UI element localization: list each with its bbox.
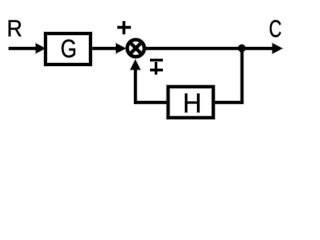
wire G to summing junction bbox=[92, 46, 118, 50]
block G label bbox=[62, 39, 76, 57]
summing junction X stroke 2 bbox=[130, 42, 142, 54]
block H box bbox=[168, 87, 213, 118]
block H label bbox=[185, 94, 200, 113]
node R label bbox=[9, 20, 22, 36]
minus-plus sign plus vertical bbox=[154, 62, 158, 75]
arrowhead up into summing junction bbox=[130, 60, 140, 70]
arrowhead to C bbox=[272, 43, 282, 53]
wire feedback up to summing junction bbox=[133, 66, 137, 104]
summing junction X stroke 1 bbox=[130, 42, 142, 54]
wire feedback into H right bbox=[215, 100, 244, 104]
wire H left to corner bbox=[134, 100, 167, 104]
wire summing junction to C bbox=[144, 46, 273, 50]
arrowhead into summing junction bbox=[116, 43, 126, 53]
arrowhead into G bbox=[36, 43, 46, 53]
wire feedback down from dot bbox=[240, 48, 244, 103]
minus-plus sign plus bar bbox=[150, 68, 163, 72]
plus sign horizontal bbox=[117, 25, 131, 29]
junction dot bbox=[238, 45, 245, 52]
summing junction circle bbox=[127, 40, 144, 57]
node C label bbox=[270, 20, 281, 37]
wire R input bbox=[9, 46, 38, 50]
minus-plus sign top bar bbox=[150, 58, 163, 62]
plus sign vertical bbox=[122, 21, 126, 34]
block G box bbox=[46, 34, 91, 65]
